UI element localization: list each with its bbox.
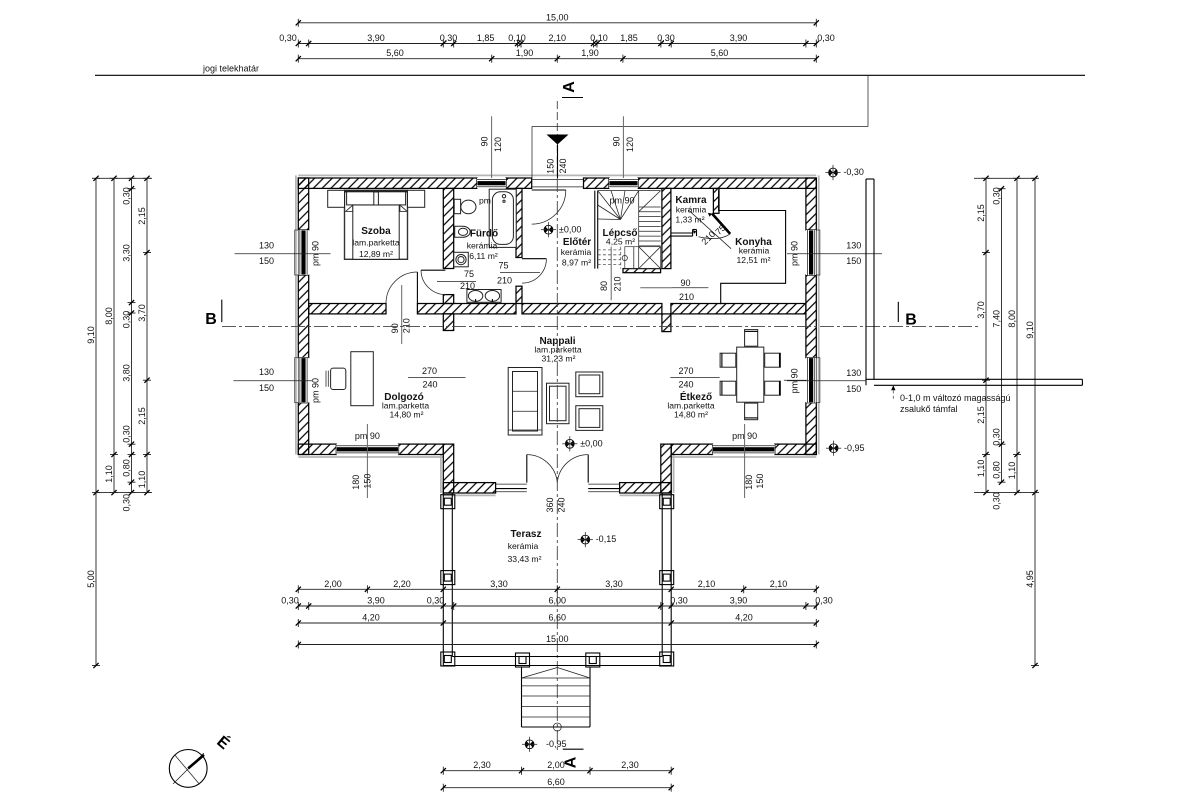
exterior shadow protrusion	[440, 455, 442, 494]
svg-text:0,30: 0,30	[992, 492, 1002, 510]
washbasin	[455, 226, 471, 237]
svg-text:4,20: 4,20	[735, 613, 753, 623]
svg-text:120: 120	[493, 137, 503, 152]
svg-text:80: 80	[599, 281, 609, 291]
partition szoba/furdo upper	[443, 188, 453, 268]
window axis line + 90/120 label (lepcso window)	[622, 116, 624, 178]
bottom dim row 2,00/2,20/3,30/3,30/2,10/2,10	[298, 588, 816, 590]
window etkezo-south (bottom wall)	[713, 444, 775, 454]
entrance door swing	[532, 190, 566, 224]
door furdo->eloter (leaf+swing)	[522, 258, 546, 260]
protrusion bottom wall left seg	[443, 483, 495, 493]
svg-text:1,10: 1,10	[976, 460, 986, 478]
outer wall bottom-left segment 1	[298, 444, 336, 454]
desk	[351, 352, 374, 406]
svg-text:270: 270	[422, 366, 437, 376]
svg-text:130: 130	[259, 240, 274, 250]
wall stub left (nappali opening)	[443, 314, 453, 331]
svg-text:kerámia: kerámia	[561, 247, 592, 257]
interior wall szoba/dolgozo seg 1	[309, 304, 386, 314]
svg-text:0,30: 0,30	[122, 187, 132, 205]
svg-text:180: 180	[351, 475, 361, 490]
outer wall top segment 4	[638, 178, 816, 188]
svg-text:0,10: 0,10	[508, 33, 526, 43]
svg-text:120: 120	[625, 137, 635, 152]
protrusion wall left	[443, 444, 453, 493]
svg-text:Terasz: Terasz	[511, 529, 542, 540]
dining chair right 2	[765, 381, 781, 395]
interior wall elotér bottom	[522, 304, 662, 314]
staircase	[598, 190, 661, 192]
svg-text:210: 210	[460, 281, 475, 291]
svg-text:240: 240	[678, 380, 693, 390]
svg-text:B: B	[905, 312, 917, 329]
svg-text:0,80: 0,80	[992, 461, 1002, 479]
svg-text:6,11 m²: 6,11 m²	[469, 251, 498, 261]
outer wall bottom-right segment 1	[671, 444, 712, 454]
left chain 8,00 / 1,10	[113, 178, 115, 492]
exterior shadow left	[295, 175, 297, 454]
svg-text:2,30: 2,30	[621, 760, 639, 770]
svg-text:15,00: 15,00	[546, 634, 569, 644]
svg-text:0,80: 0,80	[122, 459, 132, 477]
outer wall bottom-right segment 2	[775, 444, 817, 454]
window dolgozo-south (bottom wall)	[336, 444, 398, 454]
svg-text:33,43 m²: 33,43 m²	[508, 554, 542, 564]
svg-text:2,00: 2,00	[547, 760, 565, 770]
outer wall bottom-left segment 2	[399, 444, 444, 454]
svg-text:±0,00: ±0,00	[580, 438, 602, 448]
exterior shadow bottom-left	[298, 456, 443, 458]
svg-text:Szoba: Szoba	[361, 226, 391, 237]
svg-text:130: 130	[259, 367, 274, 377]
window label pm90 etkezo	[784, 379, 807, 381]
stair dim row 2,30/2,00/2,30	[443, 770, 671, 772]
svg-text:2,15: 2,15	[137, 407, 147, 425]
svg-text:kerámia: kerámia	[676, 204, 707, 214]
exterior shadow right	[818, 175, 820, 454]
window szoba (left wall)	[298, 230, 308, 275]
svg-text:A: A	[561, 81, 578, 93]
svg-text:3,70: 3,70	[976, 301, 986, 319]
svg-text:3,30: 3,30	[490, 579, 508, 589]
vanity double sink	[467, 290, 501, 303]
svg-text:12,89 m²: 12,89 m²	[359, 249, 393, 259]
svg-text:150: 150	[259, 383, 274, 393]
partition furdo/eloter	[516, 188, 522, 257]
top dimension row 5,60/1,90/1,90/5,60	[298, 58, 816, 60]
svg-text:4,95: 4,95	[1025, 570, 1035, 588]
svg-text:4,25 m²: 4,25 m²	[606, 237, 635, 247]
svg-text:0,30: 0,30	[281, 596, 299, 606]
french door leaf right	[587, 455, 589, 483]
svg-text:2,10: 2,10	[698, 579, 716, 589]
svg-text:8,97 m²: 8,97 m²	[562, 257, 591, 267]
exterior stair flight	[521, 667, 523, 728]
exterior shadow bottom-right	[671, 456, 816, 458]
svg-text:1,10: 1,10	[137, 471, 147, 489]
svg-text:±0,00: ±0,00	[559, 224, 581, 234]
svg-text:0,30: 0,30	[122, 311, 132, 329]
svg-text:1,10: 1,10	[104, 465, 114, 483]
svg-text:kerámia: kerámia	[508, 541, 539, 551]
door szoba (leaf+swing)	[416, 272, 418, 304]
outer wall top segment 2	[506, 178, 532, 188]
partition szoba/furdo lower block	[443, 295, 453, 304]
svg-text:1,90: 1,90	[581, 48, 599, 58]
svg-text:75: 75	[498, 260, 508, 270]
terrace door sidelight right	[588, 483, 619, 485]
svg-text:3,90: 3,90	[367, 596, 385, 606]
level marker -0,30 (top right)	[829, 168, 838, 177]
svg-text:2,30: 2,30	[473, 760, 491, 770]
svg-text:210: 210	[613, 276, 623, 291]
svg-text:6,60: 6,60	[547, 777, 565, 787]
kamra right wall	[713, 188, 719, 213]
svg-text:1,33 m²: 1,33 m²	[675, 214, 704, 224]
svg-text:zsalukő támfal: zsalukő támfal	[900, 404, 958, 414]
svg-text:2,10: 2,10	[770, 579, 788, 589]
bottom dim row 0,30/3,90/0,30/6,00/0,30/3,90/0,30	[298, 605, 816, 607]
outer wall right segment 3	[806, 403, 816, 455]
svg-text:5,00: 5,00	[86, 570, 96, 588]
svg-text:6,00: 6,00	[549, 596, 567, 606]
svg-text:150: 150	[846, 384, 861, 394]
stair width label 80/210	[610, 247, 612, 301]
coffee table	[547, 383, 570, 424]
door furdo->szoba (leaf+swing)	[421, 269, 445, 271]
nightstand left	[328, 190, 345, 207]
retaining wall (zsaluko tamfal)	[865, 179, 867, 385]
dining table	[737, 347, 764, 402]
svg-text:90: 90	[612, 136, 622, 146]
level marker eloter ±0,00	[544, 225, 553, 234]
svg-text:0,30: 0,30	[992, 428, 1002, 446]
svg-text:4,20: 4,20	[362, 613, 380, 623]
svg-text:130: 130	[846, 240, 861, 250]
dining chair left 1	[720, 353, 736, 367]
svg-text:15,00: 15,00	[546, 12, 569, 22]
right chain 2,15/3,70/2,15 + 0,30s	[985, 178, 987, 492]
svg-text:0,30: 0,30	[122, 425, 132, 443]
section marker A (bottom)	[563, 748, 584, 750]
svg-text:3,80: 3,80	[122, 364, 132, 382]
svg-text:0-1,0 m változó magasságú: 0-1,0 m változó magasságú	[900, 393, 1011, 403]
level marker -0,95 (right)	[829, 444, 838, 453]
right chains top connector	[974, 177, 1037, 179]
section line B-B	[222, 326, 980, 328]
svg-text:1,90: 1,90	[516, 48, 534, 58]
svg-text:0,30: 0,30	[279, 33, 297, 43]
left chain detail 0,30/3,30/…	[131, 178, 133, 492]
wall stub right (nappali opening)	[662, 314, 671, 332]
desk chair	[331, 368, 346, 389]
kitchen counter	[719, 190, 786, 304]
armchair 1	[576, 372, 603, 397]
svg-text:B: B	[205, 311, 217, 328]
svg-text:Fürdő: Fürdő	[470, 228, 498, 239]
exterior shadow top	[298, 174, 816, 176]
svg-text:0,30: 0,30	[657, 33, 675, 43]
left chain 9,10 / 5,00	[95, 178, 97, 665]
svg-text:75: 75	[464, 269, 474, 279]
svg-text:6,60: 6,60	[549, 613, 567, 623]
window axis line + 90/120 label (furdo window)	[491, 116, 493, 178]
window furdo (top wall)	[477, 178, 506, 188]
window dolgozo (left wall)	[298, 358, 308, 403]
window konyha (right wall)	[806, 230, 816, 275]
dining chair top	[745, 330, 758, 347]
svg-text:0,30: 0,30	[670, 596, 688, 606]
svg-text:14,80 m²: 14,80 m²	[674, 410, 708, 420]
svg-text:pm: pm	[479, 196, 491, 206]
outer wall left segment 3	[298, 403, 308, 455]
svg-text:8,00: 8,00	[104, 307, 114, 325]
svg-text:0,10: 0,10	[590, 33, 608, 43]
outer wall top segment 1	[298, 178, 477, 188]
svg-text:kerámia: kerámia	[739, 246, 770, 256]
toilet	[454, 199, 460, 213]
outer wall left segment 1	[298, 178, 308, 230]
right chain 9,10 / 4,95	[1034, 178, 1036, 665]
dining chair left 2	[720, 381, 736, 395]
svg-text:210: 210	[497, 276, 512, 286]
svg-text:0,30: 0,30	[817, 33, 835, 43]
svg-text:2,15: 2,15	[976, 204, 986, 222]
svg-text:240: 240	[422, 380, 437, 390]
terrace wall right	[670, 493, 672, 666]
window etkezo (right wall)	[806, 358, 816, 403]
protrusion wall right	[661, 444, 671, 493]
svg-text:A: A	[563, 756, 580, 768]
svg-text:5,60: 5,60	[711, 48, 729, 58]
armchair 2	[576, 406, 603, 431]
svg-text:12,51 m²: 12,51 m²	[737, 255, 771, 265]
left chains top connector	[96, 177, 152, 179]
svg-text:14,80 m²: 14,80 m²	[390, 410, 424, 420]
terrace wall left	[442, 493, 444, 666]
svg-text:1,85: 1,85	[620, 33, 638, 43]
svg-text:pm 90: pm 90	[609, 196, 634, 206]
bottom dim row 4,20/6,60/4,20	[298, 622, 816, 624]
stair thin wall	[594, 191, 596, 269]
svg-text:90: 90	[680, 278, 690, 288]
dining chair bottom	[745, 403, 758, 420]
svg-text:3,90: 3,90	[367, 33, 385, 43]
svg-text:90: 90	[480, 136, 490, 146]
svg-text:jogi telekhatár: jogi telekhatár	[202, 64, 259, 74]
svg-text:-0,95: -0,95	[546, 739, 567, 749]
svg-text:210: 210	[402, 318, 412, 333]
outer wall right segment 1	[806, 178, 816, 230]
svg-text:2,00: 2,00	[324, 579, 342, 589]
canopy outline above entrance	[532, 126, 868, 128]
section line A-A centre	[556, 178, 558, 750]
door kamra corner (leaf+swing)	[712, 214, 730, 234]
bed	[345, 190, 408, 259]
dining chair right 1	[765, 353, 781, 367]
outer wall top segment 3	[584, 178, 610, 188]
szoba door label 90/210	[401, 285, 403, 344]
level marker nappali ±0,00	[565, 439, 574, 448]
svg-text:3,90: 3,90	[730, 596, 748, 606]
svg-text:150: 150	[362, 474, 372, 489]
terrace wall bottom	[443, 665, 671, 667]
svg-text:150: 150	[546, 159, 556, 174]
stair dim row 6,60	[443, 787, 671, 789]
top dimension row detail 0,30/3,90/…	[298, 43, 816, 45]
svg-text:2,15: 2,15	[137, 207, 147, 225]
svg-text:0,30: 0,30	[440, 33, 458, 43]
entrance door threshold	[532, 179, 584, 181]
wall konyha/lepcso	[662, 188, 671, 268]
svg-text:8,00: 8,00	[1007, 310, 1017, 328]
svg-text:90: 90	[390, 323, 400, 333]
svg-text:2,10: 2,10	[549, 33, 567, 43]
terrace door sidelight left	[496, 483, 527, 485]
property boundary line (jogi telekhatar)	[95, 74, 1085, 76]
entrance arrow (filled triangle)	[547, 135, 569, 145]
svg-text:1,10: 1,10	[1007, 462, 1017, 480]
svg-text:-0,15: -0,15	[596, 534, 617, 544]
svg-text:240: 240	[558, 158, 568, 173]
svg-text:kerámia: kerámia	[467, 240, 498, 250]
svg-text:270: 270	[678, 366, 693, 376]
section line A dashed (top)	[556, 101, 558, 178]
top dimension row 15.00	[298, 22, 816, 24]
outer wall left segment 2	[298, 275, 308, 358]
outer wall right segment 2	[806, 275, 816, 358]
svg-text:pm 90: pm 90	[311, 378, 321, 403]
svg-text:3,90: 3,90	[730, 33, 748, 43]
svg-text:360: 360	[545, 497, 555, 512]
sofa	[508, 368, 542, 436]
svg-text:3,30: 3,30	[605, 579, 623, 589]
svg-text:180: 180	[744, 475, 754, 490]
protrusion bottom wall right seg	[620, 483, 672, 493]
window lepcso (top wall)	[609, 178, 638, 188]
svg-text:150: 150	[259, 256, 274, 266]
svg-text:150: 150	[846, 256, 861, 266]
bathtub	[489, 189, 516, 247]
french door leaf left	[526, 455, 528, 483]
stair bottom strip	[623, 269, 661, 273]
nightstand right	[408, 190, 425, 207]
svg-text:150: 150	[755, 474, 765, 489]
terrace posts	[441, 495, 455, 509]
retaining wall note	[892, 385, 894, 399]
svg-text:31,23 m²: 31,23 m²	[542, 353, 576, 363]
svg-text:5,60: 5,60	[386, 48, 404, 58]
north arrow compass	[169, 750, 207, 788]
svg-text:0,30: 0,30	[122, 494, 132, 512]
bottom dim row 15,00	[298, 644, 816, 646]
svg-text:0,30: 0,30	[427, 596, 445, 606]
svg-text:2,15: 2,15	[976, 406, 986, 424]
svg-text:9,10: 9,10	[1025, 321, 1035, 339]
level marker terasz -0,15	[581, 535, 590, 544]
svg-text:130: 130	[846, 368, 861, 378]
interior wall konyha bottom	[671, 304, 806, 314]
svg-text:3,70: 3,70	[137, 304, 147, 322]
right chain 7,40 / 0,80	[1001, 189, 1003, 483]
svg-text:0,30: 0,30	[815, 596, 833, 606]
svg-text:1,85: 1,85	[477, 33, 495, 43]
svg-text:240: 240	[557, 497, 567, 512]
right chain 8,00 / 1,10	[1016, 178, 1018, 492]
svg-text:3,30: 3,30	[122, 244, 132, 262]
walking line circle	[553, 723, 561, 731]
level marker -0,95 (bottom stairs)	[525, 740, 534, 749]
svg-text:2,20: 2,20	[393, 579, 411, 589]
svg-text:-0,95: -0,95	[844, 443, 865, 453]
svg-text:lam.parketta: lam.parketta	[352, 238, 400, 248]
left chain 2,15/3,70/2,15/1,10	[146, 178, 148, 492]
svg-text:9,10: 9,10	[86, 326, 96, 344]
svg-text:210: 210	[679, 292, 694, 302]
interior wall szoba/dolgozo seg 2 + furdo bottom	[417, 304, 516, 314]
washing machine	[454, 252, 469, 266]
kamra bottom wall	[671, 232, 692, 234]
svg-text:7,40: 7,40	[992, 310, 1002, 328]
svg-text:-0,30: -0,30	[843, 167, 864, 177]
